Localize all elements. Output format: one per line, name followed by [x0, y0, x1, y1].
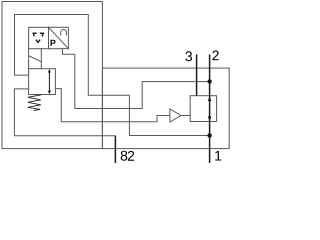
valve top wire — [40, 49, 42, 69]
lever diagonal — [29, 56, 42, 62]
enclosure right body — [102, 68, 229, 149]
label 2 — [212, 51, 218, 61]
port lines — [115, 54, 209, 163]
wire WE pilot box to node B — [62, 49, 207, 109]
shutoff valve box — [190, 96, 216, 122]
label 82 digit 8 — [121, 151, 128, 161]
arc symbol — [61, 29, 67, 34]
node A — [207, 79, 211, 83]
label 82 digit 2 — [128, 151, 134, 161]
chevron right — [40, 33, 44, 36]
amplifier U1 — [170, 109, 181, 122]
amplifier output wire — [181, 115, 190, 117]
regulator valve box — [29, 69, 56, 95]
wire W1 valve upper-left to node A loop — [15, 15, 208, 136]
wire WC valve right port to amplifier input — [55, 89, 169, 122]
port 3 line — [196, 54, 198, 95]
cell diagonal — [49, 27, 69, 48]
valve left edge extension — [28, 49, 30, 69]
port 82 line — [114, 136, 116, 163]
chevron left — [33, 33, 36, 36]
regulator double arrow — [48, 69, 51, 94]
pilot two-cell box — [29, 27, 69, 48]
spring — [28, 95, 41, 111]
cell divider — [48, 27, 50, 48]
label 1 — [215, 151, 221, 161]
label 3 — [185, 51, 192, 61]
port 2-1 line — [209, 54, 211, 163]
enclosure left body — [2, 2, 102, 149]
shutoff valve double arrow heads — [207, 79, 211, 137]
wire WB valve lower-left to port 82 — [14, 89, 115, 163]
pictogram chevrons — [33, 33, 43, 42]
node B — [207, 133, 211, 137]
label P — [51, 40, 56, 46]
chevron bottom — [36, 40, 40, 43]
